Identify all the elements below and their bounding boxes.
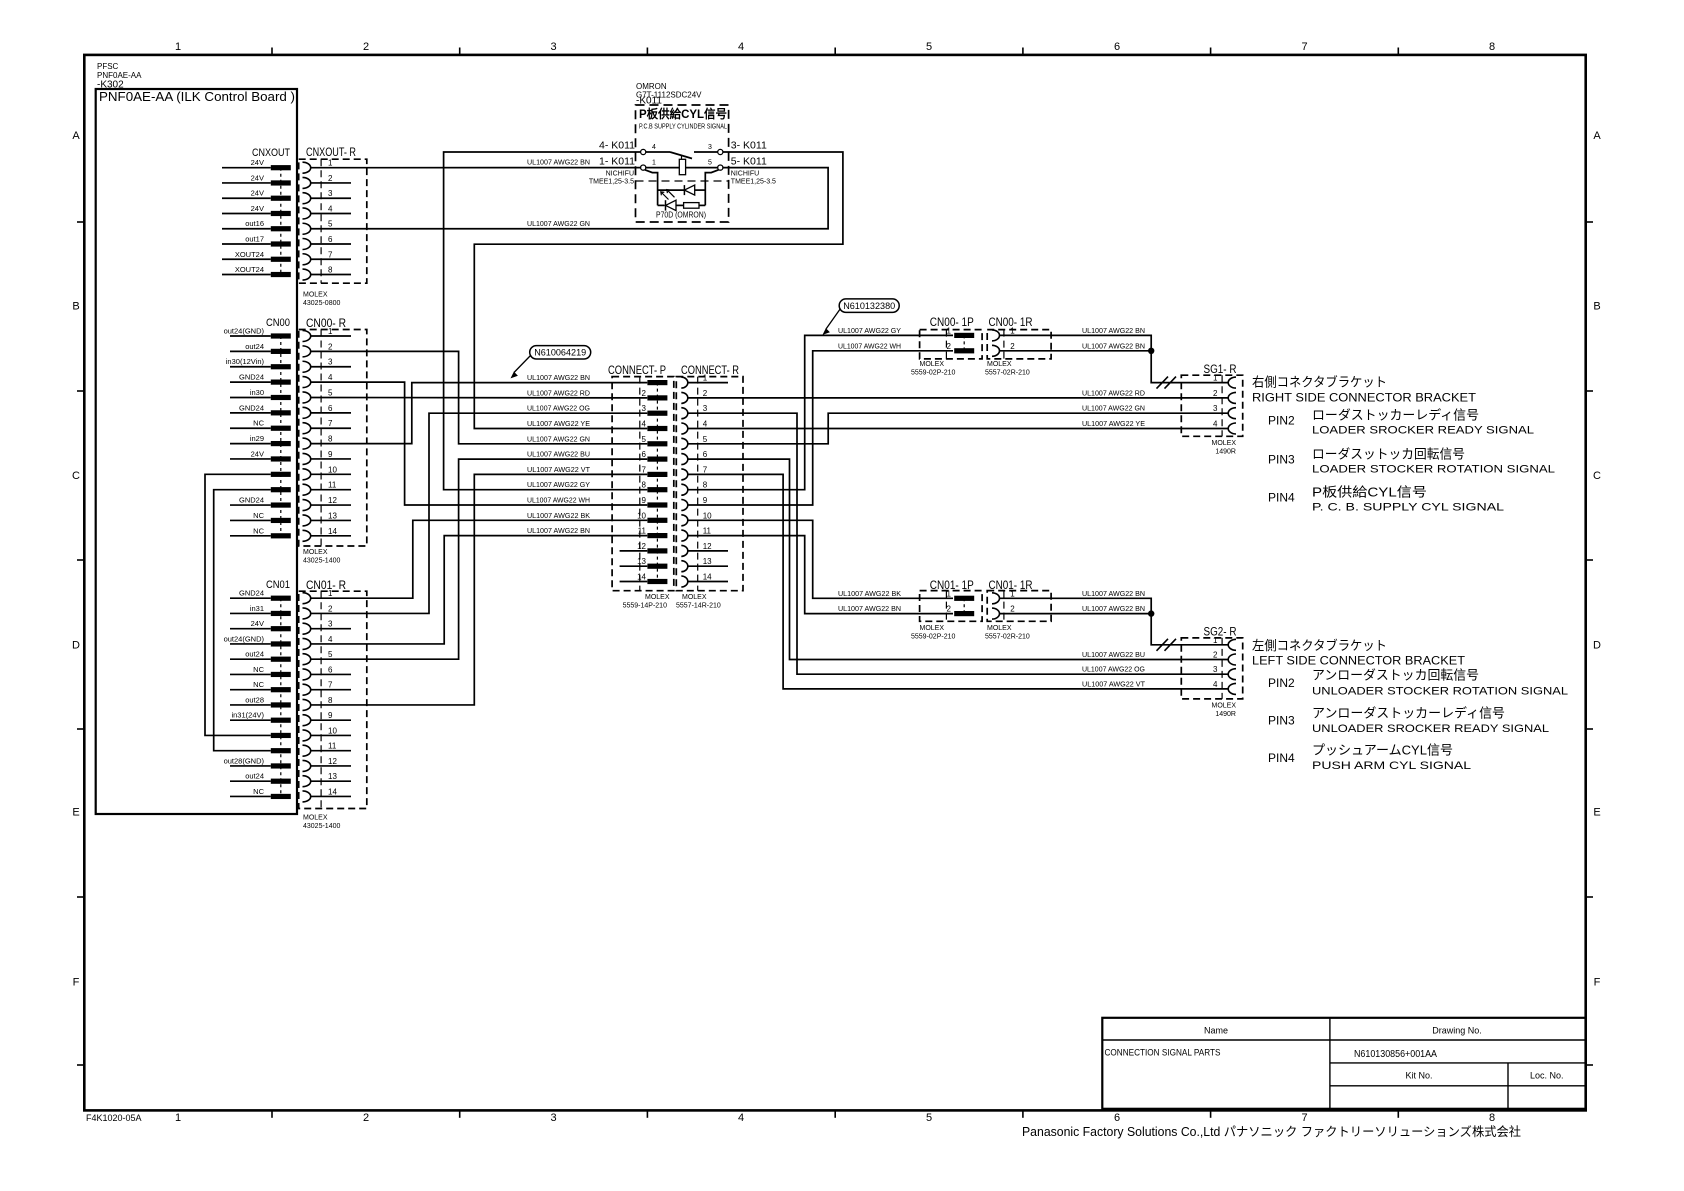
CONNECT-P pin 10 [647,518,667,523]
svg-text:UL1007 AWG22 BN: UL1007 AWG22 BN [838,604,901,613]
svg-text:14: 14 [328,527,337,536]
svg-text:9: 9 [642,496,647,505]
CN00-R pin 6 [303,407,311,418]
wire CN01-R pin8 to CONNECT-P pin7 (UL1007 AWG22 VT) [311,474,648,705]
svg-text:UL1007 AWG22 BN: UL1007 AWG22 BN [1082,604,1145,613]
svg-text:UL1007 AWG22 YE: UL1007 AWG22 YE [1082,419,1145,428]
svg-text:B: B [1593,301,1600,313]
relay terminal 3 [718,149,723,154]
svg-text:1: 1 [175,41,181,53]
svg-text:5557-14R-210: 5557-14R-210 [676,603,721,610]
border frame [84,55,1585,1111]
CN00-1R pin 1 [992,330,1000,341]
svg-text:UNLOADER SROCKER READY SIGN: UNLOADER SROCKER READY SIGNAL [1312,723,1549,735]
CNXOUT pin 3 [222,197,271,199]
CNXOUT pin 6 [222,243,271,245]
svg-text:14: 14 [328,787,337,796]
CN01 pin 7 [230,689,271,691]
svg-text:UL1007 AWG22 RD: UL1007 AWG22 RD [1082,388,1146,397]
svg-text:Drawing No.: Drawing No. [1432,1026,1482,1036]
title block [1102,1018,1585,1109]
CNXOUT-R pin 7 [303,254,311,265]
svg-text:6: 6 [1114,41,1120,53]
svg-text:14: 14 [637,573,646,582]
svg-text:MOLEX: MOLEX [303,549,328,556]
svg-text:3: 3 [328,189,333,198]
svg-text:MOLEX: MOLEX [920,625,945,632]
CNXOUT pin 8 [222,274,271,276]
svg-text:out17: out17 [245,235,264,244]
svg-text:2: 2 [947,342,952,351]
svg-text:NC: NC [253,419,264,428]
svg-text:1: 1 [703,374,708,383]
resistor R (relay) [676,204,684,206]
svg-text:out16: out16 [245,219,264,228]
CN01-1P pin 2 [954,611,974,616]
CN00-R pin 4 [303,377,311,388]
svg-text:PFSC: PFSC [97,62,119,71]
svg-text:1490R: 1490R [1215,711,1236,718]
CN00-1R pin 2 [992,345,999,356]
svg-text:F4K1020-05A: F4K1020-05A [86,1113,142,1123]
svg-text:2: 2 [703,389,708,398]
svg-text:6: 6 [1114,1112,1120,1124]
svg-text:1: 1 [175,1112,181,1124]
svg-text:2: 2 [328,604,333,613]
svg-text:out28: out28 [245,695,264,704]
svg-text:4: 4 [328,204,333,213]
svg-text:ローダストッカーレディ信号: ローダストッカーレディ信号 [1312,408,1479,423]
relay contact switch [646,151,670,153]
CN01-R pin 12 [303,760,311,771]
svg-text:A: A [1593,130,1601,142]
svg-text:UL1007 AWG22 YE: UL1007 AWG22 YE [527,419,590,428]
svg-text:5559-02P-210: 5559-02P-210 [911,370,955,377]
svg-text:8: 8 [328,266,333,275]
svg-text:D: D [1593,640,1601,652]
svg-text:1: 1 [1213,636,1218,645]
CN01-R pin 7 [303,684,311,695]
svg-text:右側コネクタブラケット: 右側コネクタブラケット [1252,375,1387,390]
CONNECT-R pin 5 [681,438,688,449]
CN01 pin 13 [230,780,271,782]
svg-text:2: 2 [328,174,333,183]
wire CONNECT-R pin2 to SG1-R pin2 (UL1007 AWG22 RD) [688,397,1229,399]
svg-text:LOADER STOCKER ROTATION SIG: LOADER STOCKER ROTATION SIGNAL [1312,464,1555,476]
CNXOUT-R pin 2 [303,177,311,188]
svg-text:P70D (OMRON): P70D (OMRON) [656,211,706,220]
svg-text:N610132380: N610132380 [843,301,895,312]
CN00 pin 7 [230,427,271,429]
CN01-1R pin 1 [992,593,1000,604]
svg-text:GND24: GND24 [239,403,264,412]
svg-text:C: C [72,470,80,482]
CN00 pin 1 [230,335,271,337]
svg-text:3: 3 [550,41,556,53]
svg-text:4: 4 [1213,420,1218,429]
svg-text:GND24: GND24 [239,496,264,505]
wire relay terminal 5 to CNXOUT-R pin 5 (UL1007 AWG22 GN) [311,168,828,229]
wire CONNECT-R pin9 to CN00-1P pin2 (UL1007 AWG22 WH) [688,351,953,505]
CN01 pin 8 [230,704,271,706]
svg-text:43025-0800: 43025-0800 [303,300,340,307]
SG1-R pin 4 [1228,423,1236,434]
CN01 pin 10 [271,733,291,738]
wire CN01-R pin5 to CONNECT-P pin6 (UL1007 AWG22 BU) [311,459,648,659]
CN00-R pin 14 [303,530,311,541]
CN00 pin 2 [230,350,271,352]
cable break slash SG2 [1157,639,1177,651]
svg-text:5: 5 [708,160,712,167]
CN00 pin 14 [230,535,271,537]
svg-text:UNLOADER STOCKER ROTATION S: UNLOADER STOCKER ROTATION SIGNAL [1312,685,1568,697]
CN00 pin 11 [271,487,291,492]
relay internal separator [636,180,729,182]
CN00-R pin 10 [303,469,311,480]
svg-text:左側コネクタブラケット: 左側コネクタブラケット [1252,638,1387,653]
svg-text:UL1007 AWG22 BN: UL1007 AWG22 BN [527,373,590,382]
CN01-R pin 9 [303,715,311,726]
svg-text:UL1007 AWG22 BN: UL1007 AWG22 BN [527,158,590,167]
wire CONNECT-R pin5 to SG1-R pin3 (UL1007 AWG22 GN) [688,413,1229,444]
CNXOUT pin 7 [222,258,271,260]
LED (relay P70D) [658,204,665,206]
relay coil [679,159,685,174]
diode D (relay) [658,189,685,191]
svg-text:10: 10 [703,511,712,520]
svg-text:in31(24V): in31(24V) [231,711,264,720]
svg-text:P板供給CYL信号: P板供給CYL信号 [1312,485,1427,500]
svg-text:13: 13 [328,772,337,781]
svg-text:UL1007 AWG22 BU: UL1007 AWG22 BU [1082,650,1145,659]
wire CN01-1R pin2 (UL1007 AWG22 BN) [1000,613,1152,615]
svg-text:1- K011: 1- K011 [599,156,635,168]
wire CONNECT-R pin10 to CN01-1P pin1 (UL1007 AWG22 BK) [688,520,953,598]
svg-text:out24: out24 [245,342,264,351]
wire CN00-R pin4 to CONNECT-P pin9 (UL1007 AWG22 WH) [311,382,648,505]
relay terminal 1 [641,165,646,170]
svg-text:CNXOUT- R: CNXOUT- R [306,147,356,159]
wire CONNECT-R pin8 to CN00-1P pin1 (UL1007 AWG22 GY) [688,335,953,489]
svg-text:CN01: CN01 [266,579,290,591]
svg-text:UL1007 AWG22 BU: UL1007 AWG22 BU [527,450,590,459]
svg-text:5557-02R-210: 5557-02R-210 [985,370,1030,377]
CN00 pin 4 [230,381,271,383]
svg-text:5: 5 [328,650,333,659]
svg-text:12: 12 [328,496,337,505]
svg-text:5: 5 [926,41,932,53]
svg-text:3: 3 [703,404,708,413]
svg-text:4- K011: 4- K011 [599,140,635,152]
svg-text:2: 2 [642,389,647,398]
svg-text:3: 3 [1213,404,1218,413]
svg-text:8: 8 [1489,41,1495,53]
CNXOUT pin 2 [222,182,271,184]
CN01 pin 3 [230,628,271,630]
svg-text:Name: Name [1204,1026,1228,1036]
svg-text:1: 1 [947,326,952,335]
wire CN00-R pin8 to CONNECT-P pin1 (UL1007 AWG22 BN) [311,383,648,444]
wire CN00 pin10 to CN01 pin10 [205,474,271,735]
svg-text:PUSH ARM CYL SIGNAL: PUSH ARM CYL SIGNAL [1312,760,1471,772]
CONNECT-R pin 13 [681,561,688,572]
svg-text:6: 6 [642,450,647,459]
svg-text:7: 7 [1301,1112,1307,1124]
CN01 pin 5 [230,658,271,660]
svg-text:CNXOUT: CNXOUT [252,147,290,159]
svg-text:13: 13 [637,557,646,566]
CONNECT-P pin 8 [647,487,667,492]
CONNECT-R pin 14 [681,576,688,587]
svg-text:UL1007 AWG22 BN: UL1007 AWG22 BN [1082,341,1145,350]
svg-text:E: E [1593,807,1600,819]
svg-text:5559-02P-210: 5559-02P-210 [911,634,955,641]
svg-text:4: 4 [328,635,333,644]
ILK control board PNF0AE-AA box [96,89,297,814]
CONNECT-P pin 13 [647,564,667,569]
svg-text:PIN4: PIN4 [1268,491,1295,505]
CONNECT-R pin 8 [681,484,688,495]
svg-text:1: 1 [328,589,333,598]
CN01 pin 9 [230,719,271,721]
svg-text:5: 5 [642,435,647,444]
svg-text:P板供給CYL信号: P板供給CYL信号 [639,106,727,121]
svg-text:-K302: -K302 [97,80,124,91]
CONNECT-P pin 14 [647,579,667,584]
CONNECT-P pin 11 [647,533,667,538]
CONNECT-P pin 9 [647,502,667,507]
svg-text:8: 8 [328,435,333,444]
svg-text:B: B [72,301,79,313]
SG2-R pin 3 [1228,669,1236,680]
svg-text:F: F [1594,977,1601,989]
svg-text:1: 1 [1010,326,1015,335]
CONNECT-R pin 2 [681,392,688,403]
CN01-R pin 6 [303,669,311,680]
svg-text:UL1007 AWG22 OG: UL1007 AWG22 OG [1082,665,1145,674]
CONNECT-R pin 1 [681,377,688,388]
svg-text:6: 6 [328,404,333,413]
svg-text:UL1007 AWG22 GN: UL1007 AWG22 GN [527,219,590,228]
svg-text:10: 10 [328,465,337,474]
svg-text:F: F [73,977,80,989]
svg-text:7: 7 [328,681,333,690]
CN01-R pin 14 [303,791,311,802]
svg-text:1: 1 [652,160,656,167]
wire CN00-1R pin2 (UL1007 AWG22 BN) [1000,350,1152,352]
svg-text:24V: 24V [251,619,264,628]
svg-text:NC: NC [253,511,264,520]
svg-text:NICHIFU: NICHIFU [731,171,759,178]
svg-text:5: 5 [328,220,333,229]
svg-text:3: 3 [328,358,333,367]
junction dot CN01-1R [1148,610,1154,616]
svg-text:NICHIFU: NICHIFU [606,171,634,178]
wire CONNECT-R pin7 to SG2-R pin4 (UL1007 AWG22 VT) [688,474,1229,689]
CONNECT-R pin 12 [681,545,688,556]
CN00 pin 13 [230,519,271,521]
CN00-R pin 11 [303,484,311,495]
wire CN00-R pin5 to CONNECT-P pin2 (UL1007 AWG22 RD) [311,396,648,398]
CN01 pin 11 [271,748,291,753]
CN01 pin 6 [230,673,271,675]
CONNECT-P pin 12 [647,548,667,553]
svg-text:RIGHT SIDE CONNECTOR BRACKET: RIGHT SIDE CONNECTOR BRACKET [1252,391,1477,405]
wire CN01-R pin1 to CONNECT-P pin10 (UL1007 AWG22 BK) [311,520,648,598]
svg-text:12: 12 [637,542,646,551]
CNXOUT-R pin 3 [303,193,311,204]
wire CN01-R pin4 to CONNECT-P pin11 (UL1007 AWG22 BN) [311,536,648,644]
svg-text:9: 9 [328,711,333,720]
CN00-R pin 7 [303,423,311,434]
svg-text:in31: in31 [250,604,264,613]
svg-text:5559-14P-210: 5559-14P-210 [623,603,667,610]
svg-text:24V: 24V [251,204,264,213]
svg-text:TMEE1,25-3.5: TMEE1,25-3.5 [589,179,634,186]
svg-text:GND24: GND24 [239,589,264,598]
CONNECT-P pin 2 [647,395,667,400]
svg-text:7: 7 [1301,41,1307,53]
svg-text:out28(GND): out28(GND) [224,756,265,765]
svg-text:9: 9 [703,496,708,505]
SG2-R pin 1 [1228,639,1236,650]
junction dot CN00-1R [1148,348,1154,354]
svg-text:PIN3: PIN3 [1268,453,1295,467]
CN00 pin 6 [230,412,271,414]
CONNECT-P pin 5 [647,441,667,446]
svg-text:CN00: CN00 [266,317,290,329]
CN01 pin 12 [230,765,271,767]
svg-text:CN00- 1P: CN00- 1P [930,317,974,329]
SG2-R pin 4 [1228,683,1236,694]
svg-text:2: 2 [947,605,952,614]
svg-text:Loc. No.: Loc. No. [1530,1071,1564,1081]
svg-text:PNF0AE-AA (ILK Control Board ): PNF0AE-AA (ILK Control Board ) [99,90,295,104]
CN00 pin 12 [230,504,271,506]
CNXOUT pin 4 [222,212,271,214]
svg-text:MOLEX: MOLEX [987,361,1012,368]
svg-text:UL1007 AWG22 OG: UL1007 AWG22 OG [527,404,590,413]
svg-text:UL1007 AWG22 BN: UL1007 AWG22 BN [1082,589,1145,598]
CN01-R pin 11 [303,745,311,756]
svg-text:3: 3 [708,144,712,151]
CN00-R pin 9 [303,453,311,464]
svg-text:MOLEX: MOLEX [1211,703,1236,710]
svg-text:13: 13 [703,557,712,566]
relay terminal 5 [718,165,723,170]
wire CONNECT-R pin6 to SG2-R pin2 (UL1007 AWG22 BU) [688,459,1229,659]
svg-text:11: 11 [703,527,712,536]
wire junction to SG2-R pin1 [1151,614,1228,645]
svg-text:5: 5 [703,435,708,444]
CN00-R pin 12 [303,500,311,511]
wire CONNECT-R pin11 to CN01-1P pin2 (UL1007 AWG22 BN) [688,536,953,614]
svg-text:P. C. B. SUPPLY CYL SIGNAL: P. C. B. SUPPLY CYL SIGNAL [1312,502,1504,514]
svg-text:E: E [72,807,79,819]
svg-text:13: 13 [328,511,337,520]
relay indicator circuit rails [645,170,658,206]
CNXOUT-R pin 5 [303,223,311,234]
CN01-1P pin 1 [954,596,974,601]
svg-text:UL1007 AWG22 WH: UL1007 AWG22 WH [527,496,590,505]
svg-text:9: 9 [328,450,333,459]
svg-text:P.C.B SUPPLY CYLINDER SIGNAL: P.C.B SUPPLY CYLINDER SIGNAL [639,124,727,131]
svg-text:4: 4 [1213,680,1218,689]
svg-text:UL1007 AWG22 GY: UL1007 AWG22 GY [527,480,590,489]
svg-text:UL1007 AWG22 RD: UL1007 AWG22 RD [527,388,591,397]
CONNECT-P pin 6 [647,457,667,462]
CN01 pin 1 [230,597,271,599]
CN01-R pin 4 [303,638,311,649]
svg-text:CONNECTION SIGNAL PARTS: CONNECTION SIGNAL PARTS [1105,1048,1221,1058]
svg-text:7: 7 [328,250,333,259]
svg-text:in30(12Vin): in30(12Vin) [226,357,265,366]
svg-text:LOADER SROCKER READY SIGNAL: LOADER SROCKER READY SIGNAL [1312,425,1534,437]
svg-text:1: 1 [328,159,333,168]
CNXOUT pin 1 [222,167,271,169]
wire CN01-1R pin1 (UL1007 AWG22 BN) [1000,598,1152,613]
svg-text:5- K011: 5- K011 [731,156,767,168]
svg-text:out24: out24 [245,650,264,659]
svg-text:ローダスットッカ回転信号: ローダスットッカ回転信号 [1312,447,1465,462]
CN00-R pin 5 [303,392,311,403]
svg-text:CN01- R: CN01- R [306,580,346,592]
CN01 pin 14 [230,795,271,797]
svg-text:8: 8 [328,696,333,705]
svg-text:43025-1400: 43025-1400 [303,823,340,830]
wire CONNECT-R pin4 to SG1-R pin4 (UL1007 AWG22 YE) [688,428,1229,430]
svg-text:PIN2: PIN2 [1268,414,1295,428]
svg-text:XOUT24: XOUT24 [235,265,264,274]
wire CNXOUT-R pin1 to relay terminal 1 (UL1007 AWG22 BN) [311,167,641,169]
svg-text:5557-02R-210: 5557-02R-210 [985,634,1030,641]
CONNECT-P pin 4 [647,426,667,431]
CONNECT-R pin 3 [681,408,688,419]
CONNECT-R pin 4 [681,423,688,434]
svg-text:NC: NC [253,526,264,535]
svg-text:UL1007 AWG22 BN: UL1007 AWG22 BN [1082,326,1145,335]
svg-text:D: D [72,640,80,652]
svg-text:11: 11 [328,481,337,490]
svg-text:MOLEX: MOLEX [920,361,945,368]
svg-text:MOLEX: MOLEX [682,594,707,601]
wire CN00-1R pin1 (UL1007 AWG22 BN) [1000,335,1152,350]
svg-text:5: 5 [328,388,333,397]
svg-text:8: 8 [642,481,647,490]
svg-text:UL1007 AWG22 BN: UL1007 AWG22 BN [527,526,590,535]
CNXOUT pin 5 [222,228,271,230]
CN01-R pin 5 [303,654,311,665]
svg-text:アンローダストッカーレディ信号: アンローダストッカーレディ信号 [1312,705,1505,720]
CN01-1R pin 2 [992,608,1000,619]
wire junction to SG1-R pin1 [1151,351,1228,383]
svg-text:2: 2 [363,1112,369,1124]
svg-text:1: 1 [328,327,333,336]
svg-text:out24(GND): out24(GND) [224,634,265,643]
CNXOUT-R pin 6 [303,239,311,250]
svg-text:24V: 24V [251,158,264,167]
svg-text:UL1007 AWG22 GN: UL1007 AWG22 GN [1082,404,1145,413]
CONNECT-R pin 10 [681,515,688,526]
svg-text:10: 10 [328,726,337,735]
svg-text:LEFT SIDE CONNECTOR BRACKET: LEFT SIDE CONNECTOR BRACKET [1252,654,1466,668]
svg-text:10: 10 [637,511,646,520]
svg-text:7: 7 [642,465,647,474]
svg-text:PIN4: PIN4 [1268,751,1295,765]
CN00-R pin 3 [303,361,311,372]
svg-text:11: 11 [328,742,337,751]
svg-text:4: 4 [703,420,708,429]
